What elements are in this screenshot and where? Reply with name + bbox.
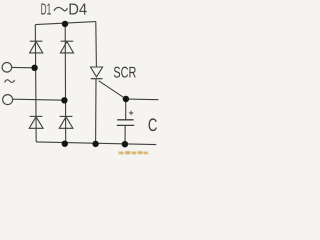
capacitor C plates bbox=[117, 120, 134, 126]
node: bottom rail / right branch junction bbox=[62, 141, 68, 147]
node: top rail / right branch junction bbox=[62, 21, 68, 27]
watermark orange marks bbox=[119, 151, 149, 154]
svg-text:D4: D4 bbox=[68, 2, 87, 19]
node: AC2 to right branch junction bbox=[61, 97, 67, 103]
label D1~D4 bbox=[41, 2, 88, 19]
diode D1 top-left bbox=[30, 41, 43, 53]
terminal circle: AC input 2 bbox=[3, 95, 13, 105]
wire: top positive rail bbox=[35, 22, 96, 25]
diode D3 bottom-left bbox=[29, 116, 43, 128]
diode D2 top-right bbox=[60, 41, 73, 53]
wire: capacitor top lead bbox=[125, 99, 127, 120]
AC tilde symbol bbox=[5, 80, 15, 83]
wire: SCR gate diagonal bbox=[99, 81, 126, 99]
node: gate / capacitor top junction bbox=[123, 96, 129, 102]
wire: AC input 1 lead bbox=[12, 66, 35, 68]
diode D4 bottom-right bbox=[59, 116, 73, 128]
wire: left bridge branch vertical bbox=[34, 25, 37, 142]
wire: SCR cathode lead to bottom rail bbox=[95, 79, 97, 144]
wire: gate node horizontal to right edge bbox=[126, 98, 159, 101]
wire: AC input 2 lead bbox=[13, 99, 65, 100]
paper background bbox=[0, 0, 161, 156]
wire: capacitor bottom lead bbox=[124, 126, 126, 145]
terminal circle: AC input 1 bbox=[2, 63, 12, 73]
node: AC1 to left branch junction bbox=[31, 65, 37, 71]
capacitor polarity plus sign bbox=[129, 111, 133, 115]
svg-text:SCR: SCR bbox=[113, 64, 136, 81]
node: bottom rail / capacitor junction bbox=[122, 141, 128, 147]
node: bottom rail / SCR cathode junction bbox=[92, 141, 98, 147]
svg-text:D1: D1 bbox=[41, 2, 52, 19]
wire: SCR anode lead from top rail bbox=[95, 22, 98, 67]
SCR thyristor symbol bbox=[91, 67, 103, 79]
wire: right bridge branch vertical bbox=[64, 24, 67, 144]
wire: bottom negative rail bbox=[36, 142, 156, 145]
svg-text:C: C bbox=[148, 115, 158, 135]
